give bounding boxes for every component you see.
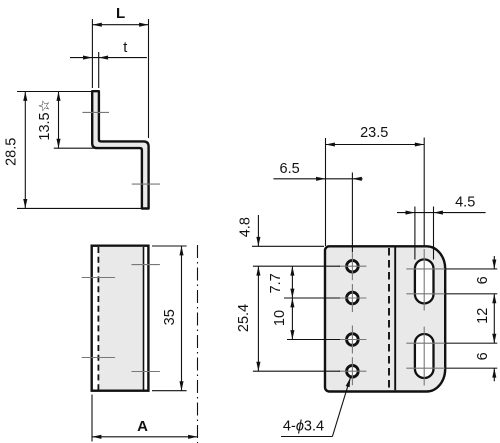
left stack extension lines (hole rows) [252, 246, 340, 371]
svg-text:23.5: 23.5 [360, 125, 388, 141]
slot S1 [415, 259, 434, 303]
dimension 4.8 [257, 215, 259, 246]
centreline tick right upper [132, 264, 160, 266]
hole H1 [347, 260, 359, 272]
hole centreline crosses [338, 252, 366, 385]
centreline tick on lower leg [132, 183, 160, 185]
hole H2 [347, 292, 359, 304]
svg-text:28.5: 28.5 [3, 138, 19, 166]
right stack dimensions 6 / 12 / 6 [493, 256, 495, 381]
svg-text:10: 10 [272, 310, 288, 326]
svg-text:6: 6 [475, 352, 491, 360]
svg-text:4.8: 4.8 [237, 217, 253, 237]
svg-text:4.5: 4.5 [455, 195, 475, 211]
centreline tick on upper flange [82, 111, 109, 113]
svg-text:4-ϕ3.4: 4-ϕ3.4 [283, 419, 324, 435]
slot S2 [415, 334, 434, 378]
plate body [325, 246, 445, 391]
dimension 35 [152, 246, 187, 391]
svg-text:7.7: 7.7 [268, 273, 284, 293]
slot arc-centre ticks / right dim extension lines [406, 269, 445, 368]
svg-text:25.4: 25.4 [236, 304, 252, 332]
svg-text:L: L [116, 5, 125, 22]
grey web face between bend line and flange edge [98, 247, 143, 390]
dimension 23.5 [326, 138, 425, 247]
flange edge line [143, 247, 145, 390]
hidden bend line (dashed) [97, 247, 99, 390]
dimension 7.7 [291, 266, 293, 298]
dimension A [92, 395, 198, 442]
leader note 4-dia3.4 [281, 378, 350, 437]
slot vertical centrelines [423, 249, 425, 386]
front view rectangle body [92, 246, 149, 391]
svg-text:35: 35 [162, 309, 178, 325]
centreline tick left lower [82, 357, 115, 359]
dimension 10 [291, 298, 293, 340]
svg-text:6.5: 6.5 [280, 161, 300, 177]
dimension 13.5 (starred) [54, 92, 98, 149]
dimension L [92, 19, 148, 138]
svg-text:13.5☆: 13.5☆ [37, 99, 53, 140]
centreline tick left upper [82, 277, 115, 279]
dimension 28.5 [17, 92, 149, 209]
Z-profile part body [92, 91, 148, 208]
bend edge line [394, 248, 396, 391]
svg-text:t: t [123, 40, 127, 56]
hole H3 [347, 334, 359, 346]
hidden bend line (dashed) [388, 248, 390, 390]
centreline tick right lower [132, 371, 160, 373]
svg-text:A: A [137, 418, 148, 435]
symmetry / boundary dash-dot line [197, 245, 199, 443]
dimension t [70, 52, 147, 88]
dimension 25.4 [257, 266, 259, 371]
svg-text:6: 6 [475, 276, 491, 284]
svg-text:12: 12 [475, 308, 491, 324]
dimension 4.5 (slot width) [397, 207, 486, 260]
hole H4 [347, 365, 359, 377]
dimension 6.5 [273, 173, 362, 253]
